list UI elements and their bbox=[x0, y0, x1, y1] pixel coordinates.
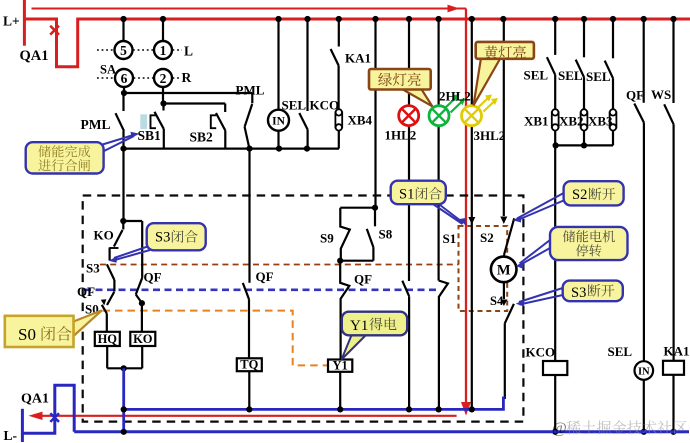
wire: S9/S8 bottom node bbox=[337, 258, 373, 264]
wire: KA1 coil to blue bus bbox=[670, 375, 676, 435]
wire: HQ/KO coils common bottom bbox=[107, 346, 142, 371]
wire: Y1 to blue bus bbox=[339, 372, 341, 410]
coil Y1 bbox=[328, 359, 352, 373]
svg-text:QA1: QA1 bbox=[20, 48, 49, 64]
wire: thin red trace line with right arrow (top) bbox=[32, 5, 467, 13]
wire: rail down to KCO coil bbox=[554, 145, 556, 361]
coil KO bbox=[130, 332, 155, 346]
svg-text:S2: S2 bbox=[572, 187, 587, 203]
wire: 2HL2 lamp column bbox=[436, 16, 442, 281]
svg-text:KA1: KA1 bbox=[664, 344, 690, 359]
pushbutton SB2 contact bbox=[216, 104, 225, 149]
svg-text:XB1: XB1 bbox=[524, 114, 549, 129]
watermark @稀土掘金技术社区 bbox=[552, 420, 687, 437]
pushbutton SB1 highlight (cyan) bbox=[140, 114, 147, 129]
svg-text:SEL: SEL bbox=[586, 69, 611, 84]
svg-text:KO: KO bbox=[94, 228, 114, 243]
svg-text:XB3: XB3 bbox=[588, 114, 613, 129]
contact SEL + link XB1 column bbox=[547, 16, 559, 146]
svg-text:QF: QF bbox=[144, 270, 162, 285]
svg-text:KCO: KCO bbox=[310, 98, 340, 113]
motor M (energy-storage motor) bbox=[491, 257, 517, 283]
annotation callout: S2断开 (S2 open) -> S2 bbox=[513, 181, 624, 222]
svg-text:WS: WS bbox=[651, 87, 671, 102]
svg-text:SEL: SEL bbox=[524, 68, 549, 83]
svg-text:2HL2: 2HL2 bbox=[439, 89, 471, 104]
svg-text:PML: PML bbox=[81, 117, 111, 132]
lamp 3HL2 lit arrows (yellow) bbox=[478, 95, 499, 112]
breaker QA1 open-mark (red X) bbox=[50, 26, 59, 35]
lamp 3HL2 (yellow, lit) bbox=[462, 106, 482, 126]
svg-text:S3: S3 bbox=[155, 230, 170, 246]
contact KO (open blade) bbox=[114, 221, 123, 247]
terminal L- bar bbox=[21, 409, 24, 442]
wire: red trace bottom horizontal with left arrow bbox=[29, 412, 457, 420]
contact WS (open) bbox=[664, 16, 676, 361]
svg-text:KO: KO bbox=[133, 332, 153, 346]
wire: 1HL2 lamp column bbox=[406, 16, 412, 281]
selector SA dotted linkage row 6-2-R bbox=[97, 77, 181, 79]
bus: blue return bus (upper) bbox=[124, 397, 504, 410]
node path: orange dashed line (S0 to Y1) bbox=[103, 311, 328, 366]
boundary: main cubicle black dashed box bbox=[83, 196, 524, 422]
wire: common rail y=148.6 (SB1/PML/SB2/SEL/KCO/XB4) bbox=[120, 146, 339, 152]
annotation callout: 绿灯亮 (green lamp on) -> 2HL2 bbox=[369, 69, 432, 106]
svg-text:S3: S3 bbox=[571, 285, 586, 301]
wire: M to S4 bbox=[503, 282, 505, 299]
contact SEL + link XB2 column bbox=[576, 16, 588, 146]
svg-text:5: 5 bbox=[120, 43, 127, 58]
indicator SEL (IN, bottom right) bbox=[635, 361, 654, 380]
pushbutton SB1 contact bbox=[155, 104, 164, 149]
node: S9/S8 top node bbox=[340, 205, 378, 211]
switch S0 direction arrow bbox=[101, 299, 107, 305]
svg-text:Y1: Y1 bbox=[332, 359, 347, 373]
svg-text:QF: QF bbox=[77, 284, 95, 299]
annotation callout: S3断开 (S3 open) -> S4 bbox=[516, 281, 623, 307]
svg-text:QF: QF bbox=[626, 88, 644, 103]
svg-text:L: L bbox=[184, 44, 193, 59]
node path: brown dashed line (S3 level) bbox=[100, 264, 459, 266]
svg-text:HQ: HQ bbox=[98, 332, 118, 346]
annotation callout: S3闭合 (S3 closed) -> S3 bbox=[109, 223, 206, 263]
svg-text:1HL2: 1HL2 bbox=[385, 128, 417, 143]
svg-text:S4: S4 bbox=[490, 294, 504, 308]
pushbutton SB1 actuator bracket bbox=[151, 115, 157, 128]
wire: bus tap to SA contact 1 bbox=[160, 16, 166, 41]
svg-text:S8: S8 bbox=[379, 227, 393, 242]
lamp 2HL2 lit arrows (green) bbox=[445, 94, 466, 112]
svg-text:S2: S2 bbox=[480, 230, 494, 245]
link XB4 (fuse-link symbol) bbox=[335, 109, 342, 148]
annotation callout: 储能电机停转 (storage motor stops) -> M bbox=[516, 227, 628, 269]
bus: blue return bus (lower, L-) bbox=[74, 430, 689, 433]
wire: QF parallel branch to KO coil bbox=[123, 221, 145, 332]
contact QF segment (blade) bbox=[107, 264, 115, 291]
lamp 1HL2 (red) bbox=[399, 106, 419, 126]
wire: XB1/XB2/XB3 merge rail bbox=[553, 142, 614, 148]
svg-text:TQ: TQ bbox=[240, 358, 258, 372]
boundary: brown dashed box around S1 bbox=[459, 226, 508, 311]
svg-text:KA1: KA1 bbox=[345, 51, 371, 66]
svg-text:1: 1 bbox=[160, 43, 167, 58]
svg-text:IN: IN bbox=[272, 116, 285, 128]
node: junctions on upper blue bus bbox=[121, 406, 475, 412]
indicator SEL (IN) bbox=[268, 110, 289, 131]
contact QF (closed, kinked) in 2HL2 column bbox=[439, 281, 448, 410]
switch S0 (closed blade) bbox=[102, 305, 107, 332]
breaker QA1 (blue, L- side detour) bbox=[22, 385, 74, 433]
wire: KCO coil to blue bus bbox=[552, 375, 558, 435]
contact QF (blade crossing blue dashed) bbox=[107, 292, 114, 305]
contact QF (top right, open) bbox=[634, 16, 647, 361]
annotation callout: S0闭合 (S0 closed) -> S0 bbox=[5, 310, 102, 347]
wire: bus tap SEL indicator column bbox=[275, 16, 281, 149]
wire: bus tap to S9/S8 node bbox=[372, 16, 378, 208]
node path: blue dashed line (QF level) bbox=[84, 288, 439, 291]
wire: 3HL2 lamp column (S1 path) bbox=[469, 16, 475, 410]
wire: rail to KO/S3 chain bbox=[120, 149, 126, 224]
node: junctions on lower blue bus bbox=[121, 429, 127, 435]
bus L+ : red supply bus with QA1 breaker detour bbox=[24, 0, 690, 67]
wire: SA-2 junction to SB2 feeder y=103.5 bbox=[160, 87, 225, 107]
annotation callout: S1闭合 (S1 closed) -> S1 bbox=[391, 181, 467, 227]
contact PML (left, NO) bbox=[116, 93, 125, 149]
breaker QA1 open-mark (blue X) bbox=[50, 413, 59, 422]
wire: red trace vertical line x=466 with down arrow bbox=[461, 9, 471, 416]
switch S1 closed direction arrow bbox=[468, 217, 475, 225]
selector SA dotted linkage row 5-1-L bbox=[97, 49, 182, 51]
svg-text:S0: S0 bbox=[18, 325, 36, 344]
svg-text:S3: S3 bbox=[86, 261, 100, 276]
svg-text:SEL: SEL bbox=[608, 344, 633, 359]
svg-text:Y1: Y1 bbox=[350, 318, 368, 334]
svg-text:S9: S9 bbox=[320, 231, 334, 246]
contact QF (open) above TQ bbox=[243, 149, 250, 359]
wire: blue drop from HQ/KO node to L- buses bbox=[122, 368, 125, 432]
svg-text:M: M bbox=[497, 263, 511, 279]
svg-text:L-: L- bbox=[4, 428, 18, 443]
svg-text:QA1: QA1 bbox=[21, 392, 49, 407]
switch S2 (open blade) bbox=[504, 218, 514, 256]
svg-text:PML: PML bbox=[236, 83, 265, 98]
svg-text:6: 6 bbox=[121, 71, 128, 86]
switch S4 direction arrow bbox=[500, 300, 507, 307]
wire: SA-6 junction to PML(right) feeder y=93 bbox=[121, 87, 252, 96]
pushbutton SB2 actuator bracket bbox=[211, 115, 216, 128]
contact QF (closed, kinked) above Y1 bbox=[340, 261, 349, 360]
svg-text:SA: SA bbox=[100, 63, 116, 77]
svg-text:S1: S1 bbox=[443, 231, 457, 246]
wire: bus tap to SA contact 5 bbox=[120, 16, 126, 41]
switch S3 (closed contact with tick) bbox=[109, 248, 118, 261]
annotation callout: 黄灯亮 (yellow lamp on) -> 3HL2 bbox=[474, 42, 534, 105]
contact PML (right, NO) bbox=[245, 93, 253, 149]
svg-text:3HL2: 3HL2 bbox=[474, 128, 506, 143]
svg-text:SEL: SEL bbox=[558, 68, 583, 83]
coil KA1 (bottom right) bbox=[663, 361, 684, 375]
switch S8 (open) bbox=[367, 208, 375, 261]
svg-text:QF: QF bbox=[256, 269, 274, 284]
contact SEL + link XB3 column bbox=[605, 16, 617, 146]
selector SA contact 1 bbox=[154, 41, 172, 59]
svg-text:SB1: SB1 bbox=[138, 128, 162, 143]
svg-text:SEL: SEL bbox=[282, 98, 307, 113]
annotation callout: 储能完成/进行合闸 (storing done, close now) -> SB1 bbox=[26, 132, 140, 174]
coil HQ bbox=[95, 332, 120, 346]
svg-text:R: R bbox=[182, 70, 192, 85]
switch S9 (closed, kinked) bbox=[340, 208, 350, 261]
selector SA contact 2 bbox=[154, 69, 172, 87]
svg-text:SB2: SB2 bbox=[190, 130, 214, 145]
switch S2 direction arrow bbox=[500, 217, 507, 225]
svg-text:2: 2 bbox=[160, 71, 167, 86]
contact QF (open) in 1HL2 column bbox=[402, 281, 409, 410]
svg-text:IN: IN bbox=[638, 367, 650, 378]
svg-text:XB2: XB2 bbox=[559, 114, 584, 129]
svg-text:KCO: KCO bbox=[526, 345, 556, 360]
coil KCO bbox=[543, 361, 567, 375]
coil TQ bbox=[237, 358, 262, 372]
contact KCO (NO) bbox=[299, 16, 310, 149]
selector SA contact 5 bbox=[115, 41, 133, 59]
svg-text:@: @ bbox=[552, 420, 567, 437]
annotation callout: Y1得电 (Y1 energized) -> Y1 bbox=[342, 312, 408, 360]
wire: bus tap S2 column bbox=[500, 16, 506, 216]
wire: IN to blue bus bbox=[641, 380, 647, 435]
selector SA contact 6 bbox=[115, 69, 133, 87]
svg-text:L+: L+ bbox=[3, 14, 20, 29]
wire: TQ to blue bus bbox=[248, 371, 250, 409]
switch S4 (open blade) bbox=[505, 304, 514, 399]
lamp 2HL2 (green, lit) bbox=[429, 106, 449, 126]
contact KA1 (NO) bbox=[331, 16, 342, 109]
svg-text:S1: S1 bbox=[399, 187, 414, 203]
svg-text:XB4: XB4 bbox=[348, 113, 373, 128]
svg-text:QF: QF bbox=[354, 272, 372, 287]
